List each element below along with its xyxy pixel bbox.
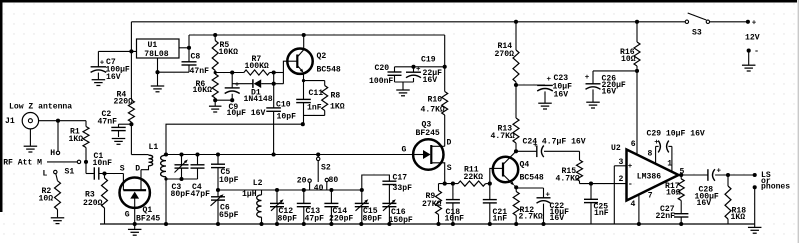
node C4 top: [195, 152, 199, 156]
svg-text:RF Att M: RF Att M: [3, 159, 42, 168]
S2 contact 20: [297, 177, 312, 186]
label C20: [369, 64, 393, 86]
label C18: [445, 208, 465, 224]
label R14: [495, 42, 515, 59]
svg-text:G: G: [125, 211, 130, 220]
label C17: [393, 173, 413, 193]
switch S1 pole wire: [47, 160, 81, 163]
label R11: [464, 166, 484, 183]
svg-text:47pF: 47pF: [305, 215, 325, 224]
svg-text:40: 40: [314, 184, 324, 193]
svg-text:R8: R8: [331, 92, 341, 101]
svg-text:C11: C11: [309, 89, 324, 98]
svg-text:4.7KΩ: 4.7KΩ: [556, 175, 580, 184]
capacitor C2: [111, 124, 131, 137]
label C12: [278, 207, 298, 224]
label R1: [69, 127, 84, 144]
node L2 bottom: [259, 222, 263, 226]
node Q3 source junction: [443, 182, 447, 186]
svg-text:-: -: [754, 46, 759, 56]
node C14 bottom: [329, 222, 333, 226]
label C14: [329, 207, 353, 224]
svg-text:1N4148: 1N4148: [244, 95, 273, 104]
label Q1: [136, 206, 160, 223]
capacitor C8: [158, 62, 197, 72]
label U2: [611, 144, 621, 153]
capacitor C22: [516, 188, 550, 224]
node C19 top: [411, 65, 415, 69]
node L1 bottom on ground rail: [164, 222, 168, 226]
svg-text:16V: 16V: [550, 214, 565, 223]
label C3: [171, 183, 191, 199]
svg-text:220Ω: 220Ω: [114, 98, 134, 107]
resistor R14: [513, 20, 519, 85]
switch S3: [685, 13, 709, 38]
label R9: [422, 192, 442, 209]
svg-text:LM386: LM386: [637, 172, 661, 181]
svg-text:+: +: [546, 191, 551, 199]
svg-text:S3: S3: [692, 29, 702, 38]
label Q3 pins: [402, 138, 452, 173]
label RF Att M: [3, 159, 42, 168]
svg-text:100KΩ: 100KΩ: [245, 62, 269, 71]
resistor R17: [678, 175, 684, 214]
node R12 bottom: [514, 222, 518, 226]
resistor R16: [634, 20, 640, 71]
label R15: [556, 167, 580, 184]
ground at output: [748, 224, 762, 233]
node Q4 collector junction: [514, 149, 518, 153]
label C10: [276, 101, 296, 122]
svg-text:220Ω: 220Ω: [83, 199, 103, 208]
svg-text:Q3: Q3: [422, 120, 432, 129]
node oscillator output junction: [301, 122, 305, 126]
svg-text:1nF: 1nF: [594, 209, 609, 218]
ground below C19/C20: [396, 90, 410, 96]
label C22: [550, 202, 570, 223]
resistor R4: [128, 51, 134, 154]
node R1 bottom junction: [84, 160, 88, 164]
wire C19/C20 node: [395, 35, 447, 69]
diode D1 1N4148: [232, 79, 283, 88]
capacitor C10: [266, 108, 281, 155]
node C27 bottom: [679, 222, 683, 226]
node C6 top on L2 rail: [216, 188, 220, 192]
label R10: [421, 95, 445, 114]
node R6 bottom: [213, 98, 217, 102]
svg-text:10µF 16V: 10µF 16V: [227, 109, 266, 118]
label C28: [695, 186, 719, 208]
svg-text:16V: 16V: [423, 76, 438, 85]
ground below R2: [51, 218, 65, 224]
ground below C23: [538, 103, 552, 109]
label S1: [65, 168, 75, 177]
svg-text:10pF: 10pF: [277, 113, 297, 122]
capacitor C7: [91, 51, 107, 79]
wire pin2 ground drop: [613, 184, 615, 224]
label C5: [219, 168, 239, 185]
label C4: [191, 183, 211, 199]
node C18 bottom: [451, 222, 455, 226]
ground below J1: [24, 129, 38, 152]
supply - terminal: [747, 46, 759, 56]
capacitor C26: [585, 71, 637, 102]
svg-text:S: S: [447, 164, 452, 173]
trimmer capacitor C16: [382, 199, 396, 224]
connector J1: [5, 113, 39, 129]
svg-text:80: 80: [329, 176, 339, 185]
wire R8 bottom to C11: [304, 114, 325, 116]
resistor R12: [513, 187, 519, 224]
node C12 top: [275, 188, 279, 192]
trimmer capacitor C3: [175, 155, 189, 180]
wire U1 ground pin: [155, 58, 159, 74]
resistor R2: [55, 174, 61, 218]
label C9: [227, 103, 266, 118]
wire phones return to ground: [754, 187, 756, 224]
node C16 bottom: [387, 222, 391, 226]
svg-text:phones: phones: [761, 183, 790, 192]
resistor R15: [577, 151, 583, 183]
svg-text:65pF: 65pF: [219, 211, 239, 220]
S2 contact 80: [325, 176, 338, 185]
ground rail: [100, 223, 755, 225]
svg-text:22nF: 22nF: [656, 212, 676, 221]
resistor R5: [212, 33, 218, 73]
ground below C26: [586, 102, 600, 108]
node R14 bottom: [514, 83, 518, 87]
svg-text:J1: J1: [5, 117, 15, 126]
label Low Z antenna: [9, 103, 72, 112]
svg-text:1µH: 1µH: [242, 190, 257, 199]
inductor L1 secondary: [161, 155, 166, 177]
svg-text:10Ω: 10Ω: [666, 189, 681, 198]
switch S2 pole: [317, 155, 320, 183]
label R12: [519, 206, 543, 221]
node C6 bottom on ground rail: [216, 222, 220, 226]
svg-text:C24 4.7µF 16V: C24 4.7µF 16V: [523, 137, 586, 146]
label R3: [83, 191, 103, 209]
svg-text:H: H: [50, 149, 55, 158]
resistor R3: [102, 174, 108, 225]
node J1 wire junction: [56, 119, 60, 123]
label C13: [305, 207, 325, 224]
svg-text:10nF: 10nF: [445, 215, 465, 224]
capacitor C23: [516, 76, 553, 103]
resistor R13: [513, 85, 519, 151]
label C26: [602, 75, 626, 97]
trimmer capacitor C6: [211, 194, 226, 224]
resistor R9: [436, 184, 442, 224]
capacitor C14: [324, 190, 338, 224]
label R16: [620, 48, 636, 64]
node C14 top: [329, 188, 333, 192]
label D1: [244, 88, 273, 103]
svg-text:47nF: 47nF: [98, 117, 118, 126]
svg-text:D: D: [447, 138, 452, 147]
node D1 cathode junction: [272, 82, 276, 86]
node Q4 base junction: [488, 182, 492, 186]
svg-text:S2: S2: [321, 163, 331, 172]
wire L1 secondary to ground: [165, 177, 167, 224]
svg-text:80pF: 80pF: [171, 190, 191, 199]
svg-text:-: -: [628, 179, 633, 189]
svg-text:10nF: 10nF: [93, 159, 113, 168]
node R3 top junction: [102, 171, 106, 175]
svg-text:L1: L1: [149, 143, 159, 152]
label C23: [553, 74, 573, 100]
transistor Q3 BF245: [413, 139, 445, 183]
svg-text:80pF: 80pF: [278, 215, 298, 224]
ground below R6: [209, 100, 222, 112]
svg-text:+: +: [547, 76, 552, 84]
svg-text:78L08: 78L08: [144, 50, 168, 59]
svg-text:+: +: [654, 139, 659, 147]
capacitor C20: [388, 67, 402, 82]
node C18 top: [451, 182, 455, 186]
wire pin4/7 ground: [637, 194, 641, 226]
svg-text:10pF: 10pF: [219, 176, 239, 185]
node L1 top on tank rail: [164, 152, 168, 156]
node phones return terminal: [753, 185, 757, 189]
svg-text:1KΩ: 1KΩ: [731, 213, 746, 222]
svg-text:2.7KΩ: 2.7KΩ: [519, 212, 543, 221]
svg-text:+: +: [100, 59, 105, 67]
wire Q2 emitter node: [302, 79, 325, 82]
node C3 bottom: [179, 177, 183, 181]
svg-text:80pF: 80pF: [363, 215, 383, 224]
wire S2 80 to C14: [327, 182, 332, 190]
svg-text:220pF: 220pF: [329, 215, 353, 224]
ground below C2: [112, 139, 126, 145]
wire to S1 H contact: [57, 121, 59, 152]
node R9 bottom: [436, 222, 440, 226]
svg-text:C17: C17: [393, 173, 408, 182]
node U2 output: [679, 173, 683, 177]
node C5 top: [216, 152, 220, 156]
capacitor C13: [297, 190, 311, 224]
svg-text:100nF: 100nF: [369, 77, 393, 86]
svg-text:3: 3: [619, 158, 624, 167]
svg-text:27KΩ: 27KΩ: [422, 200, 442, 209]
wire U1 input: [98, 50, 136, 52]
wire pin6 supply: [635, 69, 639, 155]
wire Q4 base: [490, 168, 494, 183]
label C19: [421, 56, 442, 86]
ground below C7: [92, 80, 106, 86]
wire C3/C4 bottom to L1: [164, 177, 197, 180]
capacitor C25: [584, 184, 598, 224]
capacitor C28: [708, 168, 755, 181]
supply + terminal: [746, 20, 757, 28]
svg-text:L2: L2: [253, 179, 263, 188]
svg-text:150pF: 150pF: [389, 216, 413, 225]
variable capacitor C15: [355, 190, 369, 224]
node C10 bottom on tank rail: [272, 152, 276, 156]
node C13 bottom: [302, 222, 306, 226]
svg-text:33pF: 33pF: [393, 184, 413, 193]
resistor R11: [458, 181, 490, 186]
svg-text:20: 20: [297, 177, 307, 186]
node C15 bottom: [359, 222, 363, 226]
label C27: [656, 205, 676, 221]
wire U2 output: [679, 174, 708, 176]
ground symbol below Q1: [128, 224, 142, 235]
node Q1 gate on ground rail: [133, 222, 137, 226]
label C15: [363, 207, 383, 224]
label R5: [219, 41, 239, 57]
node R4/C2 junction: [129, 122, 133, 126]
label R18: [731, 207, 747, 223]
svg-text:L: L: [43, 169, 48, 178]
svg-text:C8: C8: [191, 53, 201, 62]
svg-text:10Ω: 10Ω: [39, 195, 54, 204]
label 12V: [745, 33, 760, 42]
label S2 40: [314, 184, 324, 193]
label R7: [245, 55, 269, 71]
S1 contact L: [43, 169, 58, 178]
label Q2: [317, 52, 341, 74]
wire tank rail to Q3 gate: [166, 154, 413, 156]
wire R6/C9 bottom: [215, 98, 234, 102]
svg-text:BC548: BC548: [520, 174, 544, 183]
capacitor C24: [516, 142, 580, 157]
capacitor C19: [406, 66, 421, 82]
svg-text:C10: C10: [276, 101, 291, 110]
svg-text:22KΩ: 22KΩ: [464, 173, 484, 182]
label Q1 pins: [120, 165, 141, 220]
svg-text:+: +: [235, 81, 240, 89]
svg-text:U1: U1: [148, 41, 158, 50]
wire U1 output jog: [179, 35, 191, 62]
svg-text:6: 6: [631, 140, 636, 149]
label C25: [594, 202, 609, 217]
svg-text:BC548: BC548: [317, 66, 341, 75]
capacitor C18: [446, 184, 460, 224]
svg-text:1KΩ: 1KΩ: [330, 102, 345, 111]
svg-text:+: +: [717, 168, 722, 176]
svg-text:U2: U2: [611, 144, 621, 153]
wire J1 to R1: [39, 120, 86, 122]
svg-text:C20: C20: [375, 64, 390, 73]
label C1: [93, 152, 113, 168]
S1 contact H: [50, 149, 59, 158]
resistor R8: [322, 81, 328, 116]
resistor R10: [442, 67, 448, 147]
capacitor C17: [382, 181, 396, 203]
label C11: [307, 89, 323, 113]
transistor Q2 BC548: [287, 35, 312, 81]
wire supply to L1 primary: [131, 154, 148, 156]
ground below supply: [742, 51, 756, 71]
label C6: [219, 203, 239, 220]
label C29: [647, 129, 705, 138]
svg-text:1nF: 1nF: [493, 215, 508, 224]
regulator U1 78L08: [137, 39, 180, 59]
svg-text:10KΩ: 10KΩ: [193, 86, 213, 95]
svg-text:Q2: Q2: [317, 52, 327, 61]
capacitor C21: [483, 184, 497, 224]
svg-text:S1: S1: [65, 168, 75, 177]
capacitor C5: [211, 155, 225, 197]
trimmer capacitor C12: [270, 190, 284, 224]
svg-text:2: 2: [619, 175, 624, 184]
resistor R1: [83, 121, 89, 162]
svg-text:S: S: [120, 165, 125, 174]
svg-text:7: 7: [648, 192, 653, 201]
capacitor C4: [191, 155, 205, 180]
svg-text:D: D: [135, 165, 140, 174]
node Q2 collector on 8V rail: [302, 33, 306, 37]
svg-text:BF245: BF245: [416, 129, 440, 138]
transistor Q4 BC548: [493, 151, 518, 187]
wire Q2 base feed: [283, 61, 287, 83]
capacitor C11: [296, 81, 311, 125]
label C7 value: [106, 66, 130, 82]
label R8: [330, 92, 345, 112]
svg-text:+: +: [628, 163, 633, 171]
svg-text:BF245: BF245: [136, 214, 160, 223]
op-amp U2 LM386: [627, 150, 679, 201]
label C8: [190, 53, 210, 77]
label C16: [389, 208, 413, 225]
wire C19/C20 ground: [395, 82, 414, 90]
capacitor C29 pin1-pin8: [654, 139, 672, 172]
svg-text:12V: 12V: [745, 33, 760, 42]
resistor R6: [212, 74, 218, 100]
svg-text:C19: C19: [421, 56, 436, 65]
svg-text:G: G: [402, 145, 407, 154]
svg-text:+: +: [585, 74, 590, 82]
inductor L1 primary: [149, 155, 153, 166]
svg-text:10KΩ: 10KΩ: [219, 48, 239, 57]
label LS or phones: [761, 171, 790, 192]
label R2: [39, 187, 54, 203]
svg-text:16V: 16V: [106, 73, 121, 82]
svg-text:R10: R10: [428, 95, 443, 104]
label R17: [665, 182, 681, 198]
label Q3: [416, 120, 440, 138]
node C15 top: [360, 188, 364, 192]
label L2: [253, 179, 263, 188]
node C25 top: [589, 182, 593, 186]
wire C10 column: [273, 73, 275, 108]
node R18 top: [726, 173, 730, 177]
node C9 top on bias line: [230, 70, 234, 74]
wire signal line to U2: [580, 183, 627, 185]
label R4 value: [114, 98, 134, 107]
transistor Q1 BF245: [120, 170, 150, 224]
label L2 value: [242, 190, 257, 199]
svg-text:8: 8: [648, 150, 653, 159]
wire R7 lead: [214, 71, 244, 74]
wire oscillator injection line: [166, 124, 303, 155]
svg-text:47nF: 47nF: [190, 67, 210, 76]
capacitor C1: [86, 162, 123, 180]
capacitor C27: [674, 214, 688, 224]
wire L2 tank rail: [218, 189, 362, 191]
svg-text:1KΩ: 1KΩ: [69, 135, 84, 144]
svg-text:270Ω: 270Ω: [495, 50, 515, 59]
wire 8V rail: [189, 34, 445, 36]
label U2 pin numbers: [619, 140, 685, 209]
svg-text:4.7KΩ: 4.7KΩ: [421, 105, 445, 114]
wire L1 primary to Q1 drain: [141, 166, 149, 170]
wire C15 to C17: [362, 175, 390, 190]
wire 12V rail drop to U1 input: [130, 22, 132, 52]
label Q4: [520, 161, 544, 183]
resistor R18: [725, 175, 731, 224]
